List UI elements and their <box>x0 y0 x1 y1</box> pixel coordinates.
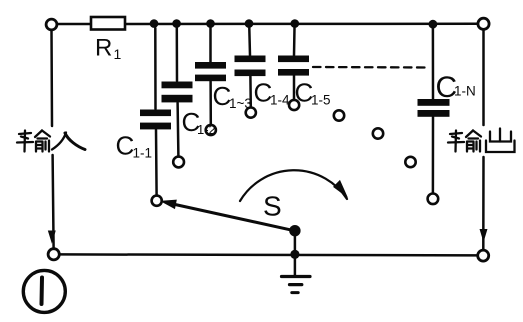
node bottom rail junction <box>290 250 299 259</box>
switch contact 2 (C1-2) <box>173 157 184 168</box>
ground <box>282 254 311 292</box>
wire right side lower <box>482 157 485 250</box>
label R1 <box>95 35 476 222</box>
capacitor C1-2 <box>162 28 193 156</box>
wire top rail left segment <box>57 23 90 26</box>
node junction C1-5 <box>291 19 300 28</box>
switch contact 1 (C1-1) <box>152 196 162 206</box>
switch S wiper arrowhead <box>162 200 177 208</box>
switch S pivot <box>289 225 300 236</box>
svg-text:1-2: 1-2 <box>197 122 216 137</box>
switch contact 3 (C1-3) <box>206 125 216 135</box>
label shu-ru (input) <box>17 131 85 152</box>
svg-text:1-N: 1-N <box>454 84 476 99</box>
node junction C1-1 <box>150 19 159 28</box>
dashed continuation line <box>313 66 429 69</box>
node junction C1-3 <box>206 19 215 28</box>
wire left side upper <box>50 30 53 126</box>
capacitor C1-4 <box>235 28 266 107</box>
svg-text:R: R <box>95 35 112 62</box>
label shu-chu (output) <box>448 129 515 153</box>
capacitor C1-1 <box>140 28 171 195</box>
wire left side lower <box>53 155 54 248</box>
wire right side upper <box>482 30 485 125</box>
arrow on right wire <box>480 230 487 241</box>
terminal output bottom <box>478 250 489 261</box>
figure number circle 1 <box>23 270 65 312</box>
terminal input top <box>46 19 57 30</box>
svg-text:1-1: 1-1 <box>133 146 153 161</box>
capacitor C1-N <box>418 28 450 193</box>
switch contact 5 (C1-5) <box>289 100 299 110</box>
svg-text:1: 1 <box>114 46 122 62</box>
node junction C1-N <box>429 20 438 29</box>
svg-text:1-4: 1-4 <box>270 93 290 108</box>
switch S wiper arm <box>170 203 295 230</box>
svg-text:1-5: 1-5 <box>311 93 331 108</box>
resistor R1 <box>91 17 125 30</box>
wire pivot to bottom rail <box>294 231 297 254</box>
switch contact 4 (C1-4) <box>246 108 256 118</box>
switch contact spare 6 <box>334 110 344 120</box>
node junction C1-2 <box>172 19 181 28</box>
terminal input bottom <box>48 249 59 260</box>
svg-text:1~3: 1~3 <box>229 96 252 111</box>
terminal output top <box>478 18 489 29</box>
switch contact spare 7 <box>373 128 383 138</box>
arrow on left wire <box>49 231 56 242</box>
capacitor C1-3 <box>195 28 226 125</box>
wire top rail main segment <box>126 23 478 26</box>
capacitor C1-5 <box>278 28 309 100</box>
svg-text:C: C <box>116 131 135 161</box>
switch arc arrowhead <box>334 181 347 197</box>
node junction C1-4 <box>245 19 254 28</box>
switch contact spare 8 <box>405 157 415 167</box>
wire bottom rail <box>60 254 478 255</box>
switch contact N (C1-N) <box>428 194 439 205</box>
switch rotation arc <box>240 170 347 201</box>
svg-text:S: S <box>263 191 282 222</box>
